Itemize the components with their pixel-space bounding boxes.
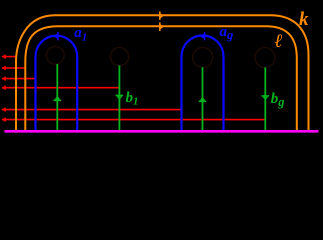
curve ag (blue arc) [182, 36, 224, 131]
red curve 3 [1, 77, 36, 81]
arrow on a1 [53, 32, 58, 41]
boundary (magenta) [5, 130, 319, 133]
label bg [271, 92, 285, 109]
arrow on ag [200, 32, 205, 41]
curve a1 (blue arc) [36, 36, 78, 130]
red curve 6 [1, 118, 265, 122]
red curve 1 [1, 55, 16, 59]
hole 1 [46, 46, 64, 64]
hole 4 [255, 48, 275, 68]
curve bg' (green under hole 3) [199, 67, 207, 130]
curve b1 (green, labelled) [116, 66, 124, 131]
red curve 5 [1, 108, 181, 112]
arrow on k [160, 11, 164, 20]
curve bg (green, labelled) [262, 67, 270, 130]
label b1 [126, 91, 139, 108]
label ag [220, 25, 234, 42]
curve k (outer orange) [16, 15, 309, 130]
label k [299, 10, 309, 29]
arrow on l [160, 22, 164, 31]
label l [275, 32, 283, 51]
hole 3 [193, 48, 213, 68]
red curve 4 [1, 86, 119, 90]
curve l (inner orange) [25, 26, 297, 130]
hole 2 [110, 48, 128, 66]
label a1 [74, 26, 87, 44]
red curve 2 [1, 66, 25, 70]
curve b1' (green under hole 1) [54, 64, 62, 130]
